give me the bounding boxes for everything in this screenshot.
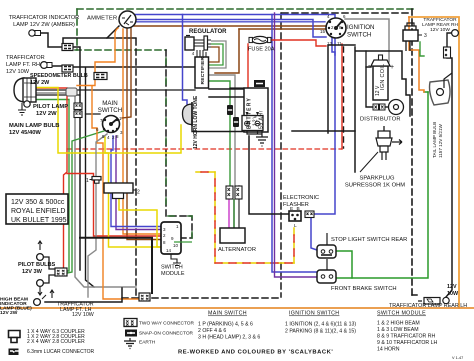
svg-text:STOP LIGHT SWITCH REAR: STOP LIGHT SWITCH REAR (331, 237, 407, 243)
wire blue flasher to stop switch (311, 218, 317, 250)
svg-text:MAIN: MAIN (102, 100, 117, 107)
regulator wrap wires grey (209, 41, 226, 68)
legend lucar icon (9, 349, 19, 356)
green dashed border top (77, 8, 413, 10)
wire purple main switch to module (116, 136, 168, 230)
svg-text:DISTRIBUTOR: DISTRIBUTOR (360, 117, 401, 123)
electronic flasher box (289, 211, 301, 221)
svg-text:1 & 3 LOW BEAM: 1 & 3 LOW BEAM (377, 327, 419, 333)
svg-text:11: 11 (337, 41, 342, 46)
switch module box (161, 222, 192, 254)
orange separator bottom (0, 307, 474, 309)
connector pair left bundle lower (74, 111, 82, 118)
svg-text:12V 2W: 12V 2W (0, 310, 18, 316)
alternator connectors (226, 186, 242, 199)
pilot bulb 1 (37, 241, 55, 269)
legend coupler icon (9, 331, 21, 343)
svg-text:REGULATOR: REGULATOR (189, 29, 227, 35)
wire black battery enclosure top (230, 87, 244, 89)
wire black flasher feed (249, 136, 289, 214)
wire yellow main switch to module pin14 (105, 137, 166, 247)
module border connector (139, 293, 150, 301)
pilot lamp icon (24, 101, 30, 107)
svg-text:12V 10W: 12V 10W (6, 69, 30, 75)
svg-text:L: L (294, 223, 297, 229)
svg-text:FUSE 20A: FUSE 20A (248, 47, 275, 53)
svg-text:14 HORN: 14 HORN (377, 347, 400, 353)
svg-text:PILOT LAMP: PILOT LAMP (33, 104, 68, 110)
green dashed border left vertical (76, 9, 78, 50)
svg-text:TAIL LAMP BULB: TAIL LAMP BULB (432, 122, 437, 158)
svg-text:B: B (297, 206, 300, 212)
horn low tone (182, 102, 192, 126)
flasher connector (305, 211, 314, 218)
svg-text:3 H (HEAD LAMP) 2, 3 & 6: 3 H (HEAD LAMP) 2, 3 & 6 (198, 335, 260, 341)
svg-text:SWITCH: SWITCH (98, 107, 122, 114)
alternator box (220, 228, 245, 243)
wire grey rectifier to alternator (209, 75, 235, 186)
snap connectors on alternator wires (227, 105, 239, 127)
sparkplug (360, 126, 402, 172)
trafficator lamp front RH (41, 62, 52, 69)
high beam arrow symbol (50, 290, 54, 298)
wire blue main switch to module (111, 136, 168, 227)
green dashed border handlebar horizontal (75, 49, 166, 51)
svg-text:10W: 10W (447, 291, 459, 297)
svg-text:SPARKPLUG: SPARKPLUG (359, 176, 394, 182)
svg-text:12V: 12V (447, 284, 457, 290)
wire ammeter to indicator connector (63, 26, 119, 44)
svg-text:TWO WAY CONNECTOR: TWO WAY CONNECTOR (139, 321, 195, 327)
svg-text:12V 2W: 12V 2W (30, 80, 50, 86)
wire trafficator RH connector down (73, 66, 195, 68)
red-yellow dashed flasher L wire (293, 228, 295, 263)
wire red headlamp main beam (36, 88, 67, 270)
stop light switch rear (317, 233, 336, 258)
black dashed border bottom horizontal (122, 297, 281, 299)
wire blue ammeter feed battery (135, 15, 317, 273)
svg-text:15: 15 (320, 29, 326, 34)
wire purple front brake (275, 13, 318, 277)
svg-text:2 PARKING (8 & 11)(2, 4 & 15): 2 PARKING (8 & 11)(2, 4 & 15) (285, 329, 356, 335)
svg-text:2 X 4 WAY 2.8 COUPLER: 2 X 4 WAY 2.8 COUPLER (27, 339, 85, 345)
wire red fuse to ignition (270, 40, 326, 46)
svg-text:SPEEDOMETER BULB: SPEEDOMETER BULB (30, 73, 88, 79)
legend two way icon (124, 319, 137, 327)
dip switch 2 (104, 183, 140, 199)
battery box (242, 88, 268, 132)
pilot connector (55, 268, 67, 276)
coil points connectors (373, 104, 385, 110)
high beam indicator lamp (0, 0, 1, 1)
two way connector A2 (62, 65, 73, 72)
svg-text:PILOT BULBS: PILOT BULBS (18, 262, 56, 268)
wire green rear RH (420, 42, 424, 56)
main lamp bulb (14, 78, 36, 102)
wire orange speedo feed (95, 28, 118, 73)
wire blue ammeter to ignition (135, 20, 326, 38)
svg-text:3: 3 (424, 33, 427, 39)
svg-text:12 V: 12 V (375, 85, 381, 96)
wire grey alternator pair (238, 186, 240, 228)
svg-text:1: 1 (86, 178, 89, 184)
svg-text:MODULE: MODULE (161, 271, 185, 277)
svg-text:V 1-47: V 1-47 (452, 356, 463, 360)
svg-text:8 & 9 TRAFFICATOR RH: 8 & 9 TRAFFICATOR RH (377, 334, 435, 340)
wire trafficator RH lamp to connector (47, 65, 62, 67)
wire brown ammeter to regulator and ignition (134, 25, 326, 27)
svg-text:12V 350 & 500cc: 12V 350 & 500cc (11, 199, 65, 206)
front brake switch (317, 259, 336, 283)
wire green front brake to tail (336, 92, 428, 278)
svg-text:AMMETER: AMMETER (87, 16, 117, 22)
pilot bulb 2 (37, 275, 55, 295)
orange frame border right (409, 17, 459, 308)
trafficator LH front lamp (34, 295, 46, 305)
wire red ignition pin11 down (341, 44, 343, 149)
wire green headlamp bundle (36, 100, 69, 272)
wire orange ammeter second (123, 29, 168, 234)
wire brown ammeter down to module (127, 28, 168, 240)
regulator (185, 36, 211, 58)
two way connector A1 (62, 44, 73, 51)
wire yellow horn run (36, 88, 181, 154)
svg-text:MAIN SWITCH: MAIN SWITCH (208, 311, 247, 317)
black dashed border top (282, 12, 411, 14)
svg-text:+: + (390, 64, 394, 71)
wire connector down left bundle black (73, 47, 80, 270)
svg-text:RECTIFIER: RECTIFIER (200, 57, 206, 85)
svg-text:TRAFFICATOR: TRAFFICATOR (6, 55, 45, 61)
svg-text:SUPRESSOR 1K OHM: SUPRESSOR 1K OHM (345, 183, 405, 189)
svg-text:1 & 2 HIGH BEAM: 1 & 2 HIGH BEAM (377, 321, 420, 327)
regulator wrap wires brown (209, 47, 219, 62)
trafficator indicator lamp amber (29, 30, 41, 36)
rear RH lamp (452, 30, 459, 37)
wire blue flasher riser (272, 15, 335, 56)
connector pair left bundle upper (74, 103, 82, 110)
wire blue ignition to flasher (314, 38, 335, 214)
wire black trafficator LH front (45, 288, 122, 302)
earth below main lamp (18, 103, 26, 115)
wire black coil minus (366, 67, 373, 107)
regulator wrap wires green (209, 44, 223, 65)
wire green rectifier to alternator (209, 81, 230, 186)
svg-text:1 P (PARKING) 4, 5 & 6: 1 P (PARKING) 4, 5 & 6 (198, 322, 253, 328)
ignition coil (368, 55, 394, 100)
svg-text:IGNITION: IGNITION (347, 24, 375, 31)
wire green alternator (233, 200, 235, 228)
black dashed border bottom right to rear lamp (412, 294, 418, 296)
black dashed border switch module vertical (166, 50, 192, 238)
svg-text:1 IGNITION (2, 4 & 6)(11 & 13): 1 IGNITION (2, 4 & 6)(11 & 13) (285, 322, 356, 328)
svg-text:SNAP-ON CONNECTOR: SNAP-ON CONNECTOR (139, 331, 194, 337)
svg-text:12V 45/40W: 12V 45/40W (9, 130, 41, 136)
svg-text:10: 10 (173, 243, 179, 248)
black dashed border left vertical (135, 39, 137, 297)
svg-text:EARTH: EARTH (139, 340, 156, 346)
wire magenta alternator (228, 200, 230, 228)
wire red main switch to module (67, 174, 168, 237)
svg-text:SWITCH: SWITCH (347, 32, 371, 39)
svg-text:12V 10W: 12V 10W (72, 312, 94, 318)
ignition switch dial (326, 18, 346, 38)
wire black rear RH lamp (447, 33, 453, 47)
svg-text:LAMP FT. RH: LAMP FT. RH (6, 62, 40, 68)
main switch dial (103, 116, 120, 133)
svg-text:12V 2W: 12V 2W (36, 111, 57, 117)
wire red fuse to battery (247, 44, 249, 113)
wire black rectifier to battery (209, 88, 244, 90)
svg-text:TRAFFICATOR INDICATOR: TRAFFICATOR INDICATOR (9, 15, 79, 21)
svg-text:LAMP 12V 2W (AMBER): LAMP 12V 2W (AMBER) (13, 22, 75, 28)
title box (6, 194, 68, 224)
svg-text:MAIN LAMP BULB: MAIN LAMP BULB (9, 123, 59, 129)
battery platform line (192, 118, 244, 132)
legend snap-on icon (125, 330, 137, 337)
fuse 20A (249, 36, 271, 43)
module earth (171, 254, 181, 268)
svg-text:TRAFFICATOR LAMP REAR LH: TRAFFICATOR LAMP REAR LH (389, 303, 467, 309)
wire brown ignition second (239, 28, 325, 30)
svg-text:UK BULLET 1995: UK BULLET 1995 (11, 217, 67, 224)
wire yellow module vertical (119, 196, 166, 247)
svg-text:ROYAL ENFIELD: ROYAL ENFIELD (11, 208, 65, 215)
wire grey ignition to coil (345, 19, 389, 62)
svg-text:14: 14 (166, 248, 172, 253)
red-yellow dashed alternator border (215, 172, 294, 263)
svg-text:12V 10W: 12V 10W (430, 27, 450, 33)
battery earth (247, 130, 268, 146)
svg-text:12V 3W: 12V 3W (22, 269, 43, 275)
wire green main switch pin6 (67, 131, 104, 273)
black dashed border centre vertical (280, 13, 282, 297)
svg-text:SWITCH MODULE: SWITCH MODULE (377, 311, 426, 317)
wire black tail long (446, 58, 452, 297)
svg-text:ALTERNATOR: ALTERNATOR (218, 247, 256, 253)
black dashed border right vertical (411, 9, 413, 295)
wire green tail riser top (424, 91, 428, 93)
svg-text:13: 13 (327, 41, 333, 46)
svg-text:IGNITION SWITCH: IGNITION SWITCH (289, 311, 339, 317)
rectifier (195, 57, 209, 88)
distributor (389, 100, 404, 115)
svg-text:6.3mm LUCAR CONNECTOR: 6.3mm LUCAR CONNECTOR (27, 349, 95, 355)
svg-text:RE-WORKED AND COLOURED BY 'SCA: RE-WORKED AND COLOURED BY 'SCALYBACK' (178, 350, 333, 356)
svg-text:FRONT BRAKE SWITCH: FRONT BRAKE SWITCH (331, 286, 397, 292)
rear RH connector (444, 47, 451, 58)
svg-text:SWITCH: SWITCH (161, 265, 183, 271)
svg-text:12V HORN LOW TONE: 12V HORN LOW TONE (193, 95, 199, 149)
legend earth icon (124, 338, 136, 349)
wire green stop switch to tail (335, 251, 352, 278)
svg-text:1157 12V 5/21W: 1157 12V 5/21W (438, 123, 443, 158)
wire indicator lamp to connector (40, 33, 62, 47)
relay 3 component (403, 23, 422, 51)
svg-text:ELECTRONIC: ELECTRONIC (283, 195, 319, 201)
svg-text:9 & 10 TRAFFICATOR LH: 9 & 10 TRAFFICATOR LH (377, 340, 438, 346)
rear LH lamp (418, 297, 449, 304)
wire grey main switch drop (88, 134, 107, 297)
wire black module earth drop (80, 238, 152, 293)
wire black frame engine box (292, 45, 355, 133)
speedometer connector (94, 73, 107, 80)
horn button 1 (86, 177, 101, 185)
speedometer bulb icon (66, 88, 77, 96)
svg-text:E: E (290, 206, 293, 212)
ammeter (119, 11, 136, 28)
tail lamp bulb (430, 73, 453, 105)
wire black points to distributor (384, 106, 389, 108)
wire brown main switch pin1 (122, 26, 131, 118)
dashed border seat area (343, 47, 345, 148)
red dashed engine border (67, 148, 342, 150)
svg-text:2: 2 (137, 190, 140, 196)
svg-text:55 AHr: 55 AHr (259, 110, 265, 129)
wire blue horn drop (183, 15, 188, 105)
svg-text:2 OFF 4 & 6: 2 OFF 4 & 6 (198, 328, 226, 334)
wire orange tail lamp feed (409, 17, 424, 92)
snap connector above battery (254, 80, 265, 87)
wire grey headlamp bundle (36, 93, 136, 287)
